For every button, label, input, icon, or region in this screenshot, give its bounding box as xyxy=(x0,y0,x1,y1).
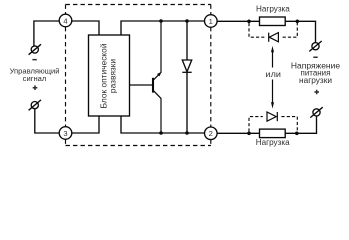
wire bottom-left: control - terminal to pin 3 xyxy=(35,109,59,133)
plus sign (supply) xyxy=(314,90,319,95)
node: bottom-left of load R2 xyxy=(247,132,251,136)
pin terminal 2 xyxy=(205,127,218,140)
svg-text:3: 3 xyxy=(63,129,67,138)
resistor load R1 (top) xyxy=(260,17,286,26)
svg-text:Нагрузка: Нагрузка xyxy=(256,137,290,147)
pin terminal 4 xyxy=(59,14,72,27)
wire: pin 1 to load supply minus terminal (top rail right) xyxy=(217,21,315,42)
load supply terminal (bottom, plus) xyxy=(310,107,322,117)
load supply terminal (top, minus) xyxy=(309,41,321,51)
opto isolation block U1 xyxy=(89,35,130,116)
transistor Q1 (output phototransistor) xyxy=(130,21,162,133)
pin terminal 1 xyxy=(205,15,218,28)
node: emitter to bottom rail xyxy=(159,131,163,135)
wire top-left: control + terminal to pin 4 xyxy=(34,21,59,46)
node: collector to top rail xyxy=(159,19,163,23)
minus sign (supply) xyxy=(313,57,317,59)
svg-text:развязки: развязки xyxy=(108,59,118,93)
node: top-right of load R1 xyxy=(296,20,300,24)
svg-text:нагрузки: нагрузки xyxy=(299,76,332,85)
svg-text:2: 2 xyxy=(209,129,213,138)
dashed leads of alternative flyback diode (top) xyxy=(249,23,297,37)
wire: pin 4 to opto block top-left pin xyxy=(72,21,99,35)
svg-text:Нагрузка: Нагрузка xyxy=(256,3,290,13)
svg-text:или: или xyxy=(266,70,281,79)
minus sign (control) xyxy=(32,59,36,61)
node: diode bottom to bottom rail xyxy=(185,131,189,135)
control signal terminal (bottom, plus) xyxy=(29,100,41,110)
control signal terminal (top, minus) xyxy=(29,44,41,54)
wire: opto block bottom-right pin down and right to pin 2 (bottom rail) xyxy=(121,116,205,133)
wire: pin 3 to opto block bottom-left pin xyxy=(72,116,99,133)
node: diode top to top rail xyxy=(185,19,189,23)
svg-text:4: 4 xyxy=(63,16,67,25)
dashed leads of alternative flyback diode (bottom) xyxy=(249,117,297,132)
double arrow with label: или (alternative positions) xyxy=(266,46,281,109)
resistor load R2 (bottom, alternative) xyxy=(260,129,286,138)
pin terminal 3 xyxy=(59,127,72,140)
flyback diode VD2 (top alternative position) xyxy=(269,33,279,42)
wire: pin 2 to load supply plus terminal (bottom rail right) xyxy=(217,116,316,133)
node: top-left of load R1 xyxy=(247,20,251,24)
label: Управляющий сигнал xyxy=(10,66,60,83)
plus sign (control) xyxy=(33,85,38,90)
diode VD1 (internal, vertical) xyxy=(182,21,191,133)
label: Напряжение питания нагрузки xyxy=(291,61,340,85)
flyback diode VD3 (bottom alternative position) xyxy=(267,112,277,121)
wire: opto block top-right pin up and right to pin 1 (top rail) xyxy=(121,21,205,35)
svg-text:сигнал: сигнал xyxy=(23,74,47,83)
dashed boundary box of solid-state relay xyxy=(66,5,212,146)
node: bottom-right of load R2 xyxy=(295,132,299,136)
svg-text:1: 1 xyxy=(209,17,213,26)
